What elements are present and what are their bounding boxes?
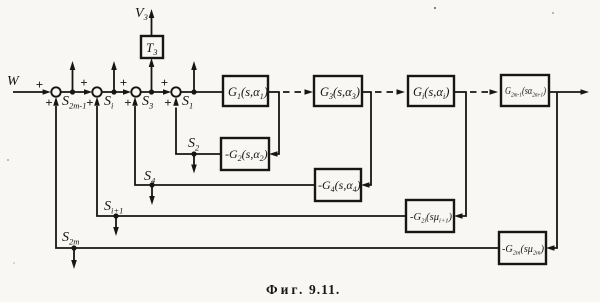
junction node after S1 <box>191 89 196 94</box>
wire Si to S3 <box>102 91 124 93</box>
node W label <box>7 74 20 89</box>
wire tap after G3 down to G4 input <box>368 92 371 185</box>
node Si+1 <box>113 213 118 218</box>
wire S2m-1 to Si <box>61 91 85 93</box>
junction node after Si <box>111 89 116 94</box>
wire G2 output to S1 bottom input <box>176 108 221 155</box>
svg-text:+: + <box>36 77 43 92</box>
block G1 <box>223 76 268 106</box>
svg-text:V3: V3 <box>135 6 148 22</box>
plus sign at S3 bottom input <box>124 95 131 110</box>
junction node after S3 <box>149 89 154 94</box>
tap arrow up from node after S2m-1 <box>70 61 76 92</box>
scan speck <box>434 7 436 9</box>
svg-text:+: + <box>164 95 171 110</box>
label S2m <box>62 230 79 247</box>
arrow S4 measurement down <box>149 185 155 205</box>
svg-text:9.11.: 9.11. <box>309 282 340 297</box>
svg-text:Фиг.: Фиг. <box>266 282 305 297</box>
svg-text:+: + <box>120 75 127 90</box>
block T3 <box>141 36 163 58</box>
block G2 <box>221 138 269 170</box>
arrow into block G2m <box>546 245 555 251</box>
tap arrow up from node after S1 <box>191 61 197 92</box>
plus sign at S2m-1 left input <box>36 77 43 92</box>
scan speck <box>13 262 15 264</box>
wire Gi output to tap node <box>454 91 467 93</box>
plus sign at Si bottom input <box>86 95 93 110</box>
plus sign at S3 left input <box>120 75 127 90</box>
svg-text:+: + <box>86 95 93 110</box>
arrow into S3 bottom <box>132 97 138 106</box>
wire up to block T3 <box>149 58 155 92</box>
svg-text:+: + <box>80 75 87 90</box>
wire G2m output to S2m-1 bottom input <box>56 106 499 248</box>
wire T3 up to V3 output arrow <box>149 9 155 36</box>
junction node after S2m-1 <box>70 89 75 94</box>
scan speck <box>7 159 9 161</box>
svg-text:S2: S2 <box>188 136 200 153</box>
node S2m <box>71 245 76 250</box>
wire dashed Gi to G2m-1 <box>470 91 490 93</box>
tap arrow up from node after Si <box>111 61 117 92</box>
svg-text:+: + <box>161 75 168 90</box>
wire G1 output to tap node <box>268 91 280 93</box>
wire tap after Gi down to G2i input <box>461 92 466 216</box>
arrow S2m measurement down <box>71 248 77 269</box>
svg-text:Si+1: Si+1 <box>104 199 123 216</box>
wire S1 to block G1 <box>181 91 223 93</box>
wire dashed G1 to G3 <box>283 91 305 93</box>
plus sign at Si left input <box>80 75 87 90</box>
label S2 <box>188 136 200 153</box>
label -G2i(s,mu i+1) <box>410 212 453 225</box>
node S2 <box>191 151 196 156</box>
block Gi <box>408 76 454 106</box>
arrow into block G3 <box>305 89 314 95</box>
node V3 label <box>135 6 148 22</box>
label G1(s,a1) <box>228 85 268 101</box>
label -G4(s,a4) <box>318 178 361 194</box>
node S4 <box>149 182 154 187</box>
arrow into S2m-1 bottom <box>53 97 59 106</box>
caption <box>266 282 340 297</box>
label T3 <box>146 40 157 57</box>
summing junction Si <box>92 87 101 96</box>
wire tap after G2m-1 down to G2m input <box>553 92 557 248</box>
plus sign at S1 left input <box>161 75 168 90</box>
arrow into summing junction S2m-1 <box>43 89 51 95</box>
wire W input <box>13 91 44 93</box>
scan speck <box>552 12 554 14</box>
wire system output <box>549 91 581 93</box>
arrow into block G2m-1 <box>490 89 499 95</box>
arrow into Si bottom <box>94 97 100 106</box>
arrow into block G4 <box>361 182 370 188</box>
wire G4 output to S3 bottom input <box>135 106 315 185</box>
arrow into S1 bottom <box>173 97 179 106</box>
label Gi(s,ai) <box>413 85 449 101</box>
plus sign at S1 bottom input <box>164 95 171 110</box>
summing junction S2m-1 <box>51 87 60 96</box>
svg-text:S4: S4 <box>144 169 156 186</box>
label Si+1 <box>104 199 123 216</box>
arrow system output <box>581 89 590 95</box>
block G3 <box>314 76 362 106</box>
block G2m <box>499 232 546 264</box>
svg-text:S3: S3 <box>142 94 153 111</box>
block G2m-1 <box>501 75 549 106</box>
svg-text:W: W <box>7 74 20 89</box>
block G4 <box>315 169 361 201</box>
arrow into summing junction S1 <box>163 89 171 95</box>
arrow S2 measurement down <box>191 154 197 174</box>
label S2m-1 <box>62 94 86 111</box>
plus sign at S2m-1 bottom input <box>45 95 52 110</box>
arrow into block Gi <box>397 89 406 95</box>
svg-text:Si: Si <box>104 94 114 111</box>
svg-text:+: + <box>45 95 52 110</box>
wire dashed G3 to Gi <box>375 91 397 93</box>
label -G2(s,a2) <box>225 147 268 163</box>
label G3(s,a3) <box>320 85 360 101</box>
svg-text:S1: S1 <box>182 94 193 111</box>
wire G3 output to tap node <box>362 91 372 93</box>
label G2m-1(s,a2m-1) <box>505 86 547 99</box>
arrow into block G2 <box>269 151 278 157</box>
svg-text:S2m-1: S2m-1 <box>62 94 86 111</box>
arrow into block G2i <box>454 213 463 219</box>
label Si <box>104 94 114 111</box>
wire tap after G1 down to G2 input <box>276 92 279 154</box>
arrow into summing junction S3 <box>123 89 131 95</box>
svg-text:S2m: S2m <box>62 230 79 247</box>
wire S3 to S1 <box>141 91 164 93</box>
label S3 <box>142 94 153 111</box>
arrow Si+1 measurement down <box>113 216 119 236</box>
label -G2m(s,mu 2m) <box>502 244 544 257</box>
summing junction S3 <box>131 87 140 96</box>
label S4 <box>144 169 156 186</box>
block G2i <box>406 200 454 232</box>
arrow into summing junction Si <box>84 89 92 95</box>
svg-text:+: + <box>124 95 131 110</box>
summing junction S1 <box>171 87 180 96</box>
label S1 <box>182 94 193 111</box>
wire G2i output to Si bottom input <box>97 106 406 216</box>
